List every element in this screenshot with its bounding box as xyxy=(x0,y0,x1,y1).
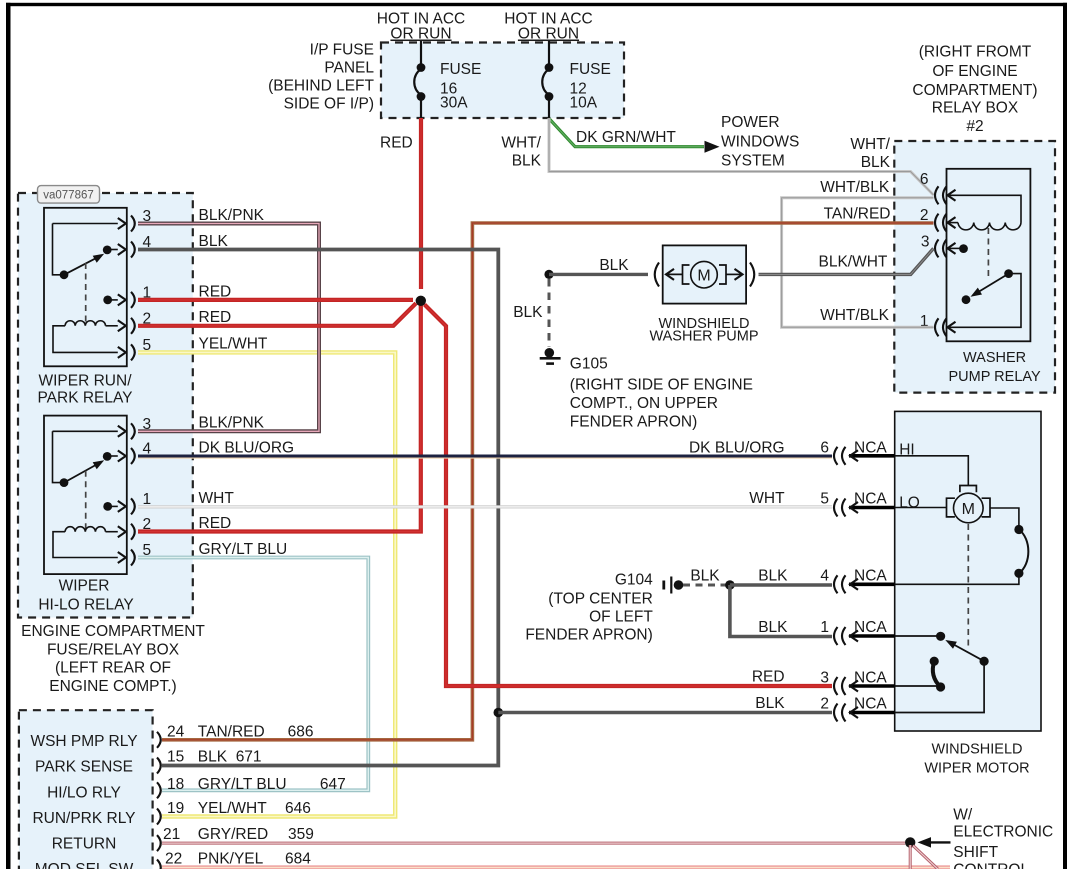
windshield wiper motor box xyxy=(895,411,1041,731)
svg-text:WHT/: WHT/ xyxy=(850,136,890,153)
label W/ ELECTRONIC SHIFT CONTROL xyxy=(953,806,1053,869)
svg-text:DK BLU/ORG: DK BLU/ORG xyxy=(689,440,785,457)
svg-text:FUSE: FUSE xyxy=(570,61,611,78)
wiper hi-lo relay pin 3 connector xyxy=(131,416,151,440)
svg-text:646: 646 xyxy=(285,800,311,817)
svg-text:5: 5 xyxy=(820,491,829,508)
svg-text:671: 671 xyxy=(236,749,262,766)
svg-text:19: 19 xyxy=(167,800,184,817)
svg-text:BLK/PNK: BLK/PNK xyxy=(199,415,265,432)
wire GRY/LT BLU hi-lo pin5 to connector pin 18 (647) xyxy=(138,541,368,790)
svg-text:WHT: WHT xyxy=(199,490,235,507)
labels for connector pins xyxy=(163,723,346,867)
wiper hi-lo relay pin 4 connector xyxy=(131,441,152,465)
wiper run/park relay pin 3 connector xyxy=(131,208,151,232)
svg-text:WIPER RUN/: WIPER RUN/ xyxy=(39,373,133,390)
engine compartment fuse/relay box connector xyxy=(19,710,153,869)
wiper hi-lo relay body xyxy=(44,416,127,574)
wire BLK connector pin15 junction to wiper motor pin 2 xyxy=(494,695,833,717)
washer pump relay pin 1 connector xyxy=(920,313,947,337)
svg-text:GRY/LT BLU: GRY/LT BLU xyxy=(199,541,288,558)
svg-text:BLK: BLK xyxy=(755,695,785,712)
svg-text:RUN/PRK RLY: RUN/PRK RLY xyxy=(32,810,135,827)
svg-text:PUMP RELAY: PUMP RELAY xyxy=(949,369,1041,385)
svg-text:3: 3 xyxy=(921,234,930,251)
svg-text:SIDE OF I/P): SIDE OF I/P) xyxy=(284,96,374,113)
connector pin 15 xyxy=(157,758,161,774)
washer pump relay pin 2 connector xyxy=(920,207,947,232)
node HOT IN ACC OR RUN (fuse 12) xyxy=(504,11,592,43)
wiper run/park relay body xyxy=(44,208,127,366)
connector pin 21 xyxy=(157,835,161,851)
svg-text:BLK/PNK: BLK/PNK xyxy=(199,207,265,224)
wiper motor pin 1 connector NCA xyxy=(820,619,894,645)
svg-text:WHT/BLK: WHT/BLK xyxy=(820,307,890,324)
svg-text:RED: RED xyxy=(199,515,232,532)
wiper run/park relay pin 5 connector xyxy=(131,337,151,361)
wire GRY/RED connector pin 21 to shift control junction xyxy=(162,842,905,845)
svg-text:W/: W/ xyxy=(953,806,973,823)
svg-text:BLK: BLK xyxy=(861,154,891,171)
label WIPER HI-LO RELAY xyxy=(38,578,133,614)
svg-text:COMPARTMENT): COMPARTMENT) xyxy=(912,82,1037,99)
label ENGINE COMPARTMENT FUSE/RELAY BOX xyxy=(21,623,205,695)
arrow W/ ELECTRONIC SHIFT CONTROL xyxy=(918,837,951,848)
svg-text:WASHER PUMP: WASHER PUMP xyxy=(649,329,758,345)
svg-text:647: 647 xyxy=(320,776,346,793)
svg-text:ENGINE COMPT.): ENGINE COMPT.) xyxy=(49,678,176,695)
svg-text:COMPT., ON UPPER: COMPT., ON UPPER xyxy=(570,395,718,412)
svg-text:SHIFT: SHIFT xyxy=(953,844,998,861)
svg-text:21: 21 xyxy=(163,826,180,843)
node RED junction xyxy=(416,296,426,306)
svg-text:RELAY BOX: RELAY BOX xyxy=(932,100,1019,117)
connector pin 24 xyxy=(157,732,161,748)
svg-text:NCA: NCA xyxy=(854,696,887,713)
svg-text:WINDOWS: WINDOWS xyxy=(721,134,799,151)
svg-text:GRY/LT BLU: GRY/LT BLU xyxy=(198,776,287,793)
svg-text:MOD SEL SW: MOD SEL SW xyxy=(35,861,134,869)
svg-text:RED: RED xyxy=(199,284,232,301)
wire GRY/RED branch diagonal xyxy=(913,846,938,869)
wiper motor pin 5 connector NCA xyxy=(820,491,894,517)
svg-text:OR RUN: OR RUN xyxy=(518,26,579,43)
svg-text:5: 5 xyxy=(143,542,152,559)
svg-text:PNK/YEL: PNK/YEL xyxy=(198,851,264,868)
svg-text:5: 5 xyxy=(143,337,152,354)
wiper run/park relay pin 2 connector xyxy=(131,310,151,334)
label WHT/BLK (relay pin 6 wire) xyxy=(850,136,890,171)
I/P fuse panel box xyxy=(381,43,624,119)
svg-text:GRY/RED: GRY/RED xyxy=(198,826,268,843)
svg-text:FENDER APRON): FENDER APRON) xyxy=(570,414,697,431)
svg-text:DK BLU/ORG: DK BLU/ORG xyxy=(199,440,295,457)
wiper motor internals xyxy=(895,441,1029,712)
svg-text:I/P FUSE: I/P FUSE xyxy=(310,42,374,59)
svg-text:#2: #2 xyxy=(966,118,983,135)
svg-text:(TOP CENTER: (TOP CENTER xyxy=(548,591,653,608)
wire RED junction down to hi-lo pin2 xyxy=(138,303,421,532)
wire BLK dashed ground jumper xyxy=(683,568,726,586)
svg-text:30A: 30A xyxy=(440,95,468,112)
svg-text:TAN/RED: TAN/RED xyxy=(198,723,265,740)
svg-text:YEL/WHT: YEL/WHT xyxy=(199,336,268,353)
svg-text:BLK: BLK xyxy=(199,233,229,250)
fuse 16 30A xyxy=(414,41,481,118)
label (RIGHT FROMT OF ENGINE COMPARTMENT) RELAY BOX #2 xyxy=(912,44,1037,136)
node shift control junction xyxy=(905,837,915,847)
svg-text:G104: G104 xyxy=(615,572,653,589)
svg-text:NCA: NCA xyxy=(854,439,887,456)
svg-text:RED: RED xyxy=(199,309,232,326)
wiper motor pin 4 connector NCA xyxy=(820,568,894,594)
ground G105 xyxy=(540,348,561,364)
svg-text:ELECTRONIC: ELECTRONIC xyxy=(953,824,1053,841)
svg-text:15: 15 xyxy=(167,749,184,766)
svg-text:NCA: NCA xyxy=(854,568,887,585)
svg-text:OF LEFT: OF LEFT xyxy=(589,609,653,626)
svg-text:359: 359 xyxy=(288,826,314,843)
wire WHT hi-lo pin1 to wiper motor pin 5 xyxy=(138,490,832,507)
wire BLK/WHT washer pump to relay pin 3 xyxy=(759,248,934,274)
washer pump relay pin 6 connector xyxy=(920,171,947,204)
wire WHT/BLK washer pump relay pin6 to pin1 via pump side xyxy=(782,179,934,327)
label WIPER RUN/ PARK RELAY xyxy=(37,373,132,407)
wire DK GRN/WHT to power windows xyxy=(549,119,704,147)
svg-text:WSH PMP RLY: WSH PMP RLY xyxy=(30,733,137,750)
svg-text:PARK SENSE: PARK SENSE xyxy=(35,759,133,776)
connector terminal names xyxy=(30,733,137,869)
svg-text:WHT/BLK: WHT/BLK xyxy=(820,179,890,196)
wire BLK to wiper motor pin 4 xyxy=(730,568,832,586)
label WINDSHIELD WIPER MOTOR xyxy=(924,742,1029,777)
svg-text:OR RUN: OR RUN xyxy=(390,26,451,43)
svg-text:6: 6 xyxy=(820,439,829,456)
svg-text:2: 2 xyxy=(820,696,829,713)
svg-text:HI-LO RELAY: HI-LO RELAY xyxy=(38,596,133,613)
wire BLK/PNK run/park pin3 to hi-lo pin3 xyxy=(138,207,319,432)
wire GRY/RED branch down xyxy=(909,845,912,869)
svg-text:22: 22 xyxy=(165,851,182,868)
svg-text:(RIGHT FROMT: (RIGHT FROMT xyxy=(919,44,1032,61)
fuse 12 10A xyxy=(542,41,611,118)
svg-text:TAN/RED: TAN/RED xyxy=(824,206,891,223)
svg-text:PANEL: PANEL xyxy=(324,60,374,77)
wire RED from fuse 16 to junction xyxy=(380,118,421,289)
svg-text:18: 18 xyxy=(167,776,184,793)
wire RED run/park pin2 to junction xyxy=(138,303,416,326)
arrow to POWER WINDOWS SYSTEM xyxy=(705,141,720,153)
svg-text:WIPER: WIPER xyxy=(59,578,110,595)
wire RED junction to wiper motor pin3 xyxy=(425,305,833,687)
svg-text:BLK: BLK xyxy=(198,749,228,766)
svg-text:10A: 10A xyxy=(570,95,598,112)
wire WHT/BLK from fuse 12 to washer pump relay pin 6 xyxy=(501,118,933,195)
svg-text:BLK: BLK xyxy=(512,153,542,170)
wiper run/park relay pin 1 connector xyxy=(131,284,151,308)
svg-text:ENGINE COMPARTMENT: ENGINE COMPARTMENT xyxy=(21,623,205,640)
svg-text:M: M xyxy=(962,501,975,518)
relay box #2 dashed enclosure xyxy=(894,141,1055,393)
svg-text:va077867: va077867 xyxy=(43,190,94,202)
wire BLK run/park pin4 to connector pin 15 (671) xyxy=(138,233,498,766)
wiper hi-lo relay pin 5 connector xyxy=(131,542,151,566)
tag va077867 xyxy=(38,186,100,204)
svg-text:RED: RED xyxy=(752,669,785,686)
svg-text:NCA: NCA xyxy=(854,619,887,636)
washer pump relay pin 3 connector xyxy=(921,234,947,258)
svg-text:684: 684 xyxy=(285,851,311,868)
connector pin 22 xyxy=(157,860,161,869)
label G105 location xyxy=(570,356,753,431)
svg-text:WASHER: WASHER xyxy=(963,350,1026,366)
label WASHER PUMP RELAY xyxy=(949,350,1041,385)
svg-text:BLK: BLK xyxy=(690,568,720,585)
label POWER WINDOWS SYSTEM xyxy=(721,114,799,170)
svg-text:WIPER MOTOR: WIPER MOTOR xyxy=(924,761,1029,777)
svg-text:WHT: WHT xyxy=(749,490,785,507)
washer pump relay internals: coil and switch xyxy=(948,190,1022,333)
svg-text:(LEFT REAR OF: (LEFT REAR OF xyxy=(55,660,171,677)
svg-text:RETURN: RETURN xyxy=(52,836,117,853)
wire YEL/WHT run/park pin5 to connector pin 19 (646) xyxy=(138,336,395,817)
node junction washer pump BLK xyxy=(544,270,553,279)
wiper run/park relay pin 4 connector xyxy=(131,234,152,258)
svg-text:4: 4 xyxy=(820,568,829,585)
washer pump motor xyxy=(655,245,755,303)
svg-text:NCA: NCA xyxy=(854,491,887,508)
svg-text:YEL/WHT: YEL/WHT xyxy=(198,800,267,817)
wire BLK dashed to ground G105 xyxy=(513,279,549,347)
svg-text:FUSE: FUSE xyxy=(440,61,481,78)
svg-text:FUSE/RELAY BOX: FUSE/RELAY BOX xyxy=(47,642,180,659)
svg-text:WINDSHIELD: WINDSHIELD xyxy=(931,742,1022,758)
svg-text:DK GRN/WHT: DK GRN/WHT xyxy=(576,129,676,146)
svg-text:BLK: BLK xyxy=(599,257,629,274)
wiper motor pin 2 connector NCA xyxy=(820,696,894,722)
svg-text:24: 24 xyxy=(167,723,185,740)
wiper hi-lo relay pin 2 connector xyxy=(131,516,151,540)
svg-text:WHT/: WHT/ xyxy=(501,135,541,152)
wire TAN/RED washer relay pin 2 to connector pin 24 xyxy=(162,206,934,740)
svg-text:SYSTEM: SYSTEM xyxy=(721,153,785,170)
label G104 location xyxy=(525,572,653,644)
label I/P FUSE PANEL xyxy=(268,42,374,113)
wiper motor pin 3 connector NCA xyxy=(820,670,894,696)
svg-text:686: 686 xyxy=(288,723,314,740)
wire RED run/park pin1 to junction xyxy=(138,284,413,301)
svg-text:RED: RED xyxy=(380,135,413,152)
svg-text:CONTROL: CONTROL xyxy=(953,862,1029,869)
node G104 junction xyxy=(725,580,735,590)
connector pin 19 xyxy=(157,809,161,825)
svg-text:BLK: BLK xyxy=(758,619,788,636)
connector pin 18 xyxy=(157,782,161,798)
wire BLK junction to washer pump xyxy=(549,257,648,274)
wiper motor pin 6 connector NCA xyxy=(820,439,894,465)
svg-text:BLK/WHT: BLK/WHT xyxy=(818,254,887,271)
svg-text:(RIGHT SIDE OF ENGINE: (RIGHT SIDE OF ENGINE xyxy=(570,377,753,394)
svg-text:G105: G105 xyxy=(570,356,608,373)
svg-text:HI/LO RLY: HI/LO RLY xyxy=(47,784,121,801)
wire PNK/YEL connector pin 22 xyxy=(162,865,950,869)
ground G104 xyxy=(664,577,684,594)
engine compartment fuse/relay box enclosure xyxy=(18,193,193,618)
wire DK BLU/ORG hi-lo pin4 to wiper motor pin 6 xyxy=(138,440,832,458)
svg-text:M: M xyxy=(697,268,710,285)
svg-text:LO: LO xyxy=(899,495,920,512)
wire BLK to wiper motor pin 1 xyxy=(730,585,832,637)
svg-text:6: 6 xyxy=(920,171,929,188)
svg-text:1: 1 xyxy=(820,619,829,636)
svg-text:(BEHIND LEFT: (BEHIND LEFT xyxy=(268,78,374,95)
svg-text:3: 3 xyxy=(820,670,829,687)
svg-text:FENDER APRON): FENDER APRON) xyxy=(525,627,652,644)
washer pump relay body xyxy=(947,169,1031,341)
label WINDSHIELD WASHER PUMP xyxy=(649,316,758,345)
wiper hi-lo relay pin 1 connector xyxy=(131,491,151,515)
svg-text:BLK: BLK xyxy=(758,568,788,585)
svg-text:PARK RELAY: PARK RELAY xyxy=(37,390,132,407)
svg-text:OF ENGINE: OF ENGINE xyxy=(932,63,1017,80)
svg-text:BLK: BLK xyxy=(513,304,543,321)
node HOT IN ACC OR RUN (fuse 16) xyxy=(377,11,465,43)
svg-text:NCA: NCA xyxy=(854,670,887,687)
svg-text:POWER: POWER xyxy=(721,114,780,131)
